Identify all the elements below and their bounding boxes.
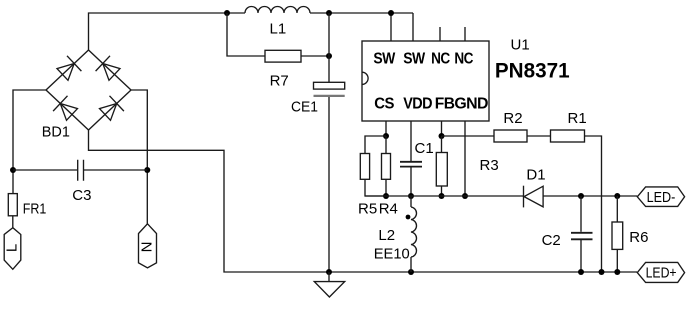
bridge BD1 bottom-right edge xyxy=(89,90,132,130)
svg-text:N: N xyxy=(138,242,155,253)
svg-text:SW: SW xyxy=(403,51,426,68)
wire bridge bottom vertex to ground rail xyxy=(89,130,638,272)
wire GND pin xyxy=(464,121,466,196)
svg-text:NC: NC xyxy=(454,51,473,68)
svg-text:R2: R2 xyxy=(503,110,522,127)
node ground rail / L2 xyxy=(408,269,414,275)
resistor R1 xyxy=(551,130,585,142)
node VDD bottom xyxy=(408,193,414,199)
diode BD1-c (points to left vertex) xyxy=(53,96,77,121)
wire R2 to R1 xyxy=(527,135,551,137)
svg-text:C2: C2 xyxy=(542,232,561,249)
inductor L2 xyxy=(411,207,417,257)
bridge BD1 top-right edge xyxy=(89,50,132,90)
wire C2 bottom lead xyxy=(580,240,582,272)
terminal LED- xyxy=(637,187,684,207)
svg-text:L1: L1 xyxy=(270,21,287,38)
resistor R5 xyxy=(360,154,369,180)
svg-text:BD1: BD1 xyxy=(42,124,70,141)
svg-text:EE10: EE10 xyxy=(374,246,410,263)
resistor R2 xyxy=(494,130,527,142)
capacitor C1 xyxy=(400,162,422,167)
wire FB to R2 xyxy=(442,135,495,137)
node ground rail / CE1 xyxy=(326,269,332,275)
svg-text:L: L xyxy=(4,244,21,252)
node R6 top xyxy=(614,193,620,199)
node C3 left xyxy=(10,167,16,173)
svg-text:LED-: LED- xyxy=(647,189,676,206)
svg-text:NC: NC xyxy=(431,51,450,68)
svg-text:C3: C3 xyxy=(72,187,91,204)
wire R1 to LED+ rail xyxy=(585,136,602,272)
resistor R6 xyxy=(612,222,623,249)
capacitor C3 xyxy=(78,160,84,181)
svg-text:D1: D1 xyxy=(526,166,545,183)
node top rail / SW1 xyxy=(388,10,394,16)
wire R6 bottom lead xyxy=(616,249,618,272)
svg-text:GND: GND xyxy=(454,95,488,112)
diode BD1-b (points to top vertex) xyxy=(96,56,120,81)
svg-text:R1: R1 xyxy=(568,110,587,127)
wire L2 top lead xyxy=(410,196,412,207)
node FB xyxy=(439,133,445,139)
wire R7 right branch xyxy=(301,55,329,57)
node C2 top xyxy=(578,193,584,199)
wire bridge left vertex to FR1 xyxy=(13,90,46,194)
svg-text:L2: L2 xyxy=(378,227,395,244)
wire C3 left lead xyxy=(13,169,77,171)
node R7 / CE1 xyxy=(326,53,332,59)
node ground rail / R1 xyxy=(599,269,605,275)
svg-text:R5: R5 xyxy=(358,201,377,218)
ground symbol xyxy=(314,272,344,297)
wire top rail from L1 to SW pins xyxy=(310,12,413,14)
resistor R4 xyxy=(382,154,391,180)
wire L2 bottom lead xyxy=(410,257,412,272)
wire CE1 bottom lead to ground rail xyxy=(328,97,330,272)
node CS xyxy=(383,133,389,139)
wire CS pin xyxy=(385,121,387,136)
capacitor C2 xyxy=(571,233,593,240)
wire VDD pin to C1 xyxy=(410,121,412,161)
resistor R7 xyxy=(265,50,301,62)
pin stub NC2 xyxy=(464,27,466,41)
chip U1 body xyxy=(362,41,489,121)
svg-text:C1: C1 xyxy=(415,140,434,157)
pin stub NC1 xyxy=(439,27,441,41)
node R4 bottom xyxy=(383,193,389,199)
svg-text:CE1: CE1 xyxy=(291,98,318,115)
wire R3 bottom lead xyxy=(441,186,443,196)
wire top rail from bridge top vertex to L1 xyxy=(89,13,246,50)
svg-text:CS: CS xyxy=(374,95,394,112)
wire R6 top lead xyxy=(616,196,618,222)
wire R5 bottom xyxy=(365,179,386,196)
wire FR1 to L terminal xyxy=(12,216,14,228)
diode BD1-d (points to right vertex) xyxy=(100,96,124,121)
terminal LED+ xyxy=(637,262,684,282)
inductor L1 xyxy=(245,7,310,14)
bridge BD1 top-left edge xyxy=(46,50,89,90)
wire C3 right lead xyxy=(84,169,147,171)
svg-text:R4: R4 xyxy=(379,201,398,218)
wire C1 bottom lead xyxy=(410,167,412,196)
node top rail / R7 left xyxy=(224,10,230,16)
node C3 right xyxy=(144,167,150,173)
diode D1 xyxy=(524,186,544,208)
chip U1 notch xyxy=(362,72,368,84)
fuse resistor FR1 xyxy=(8,194,17,216)
wire CS to R5 top xyxy=(365,136,386,154)
svg-text:FB: FB xyxy=(435,95,455,112)
node ground rail / R6 xyxy=(614,269,620,275)
svg-text:U1: U1 xyxy=(511,36,530,53)
svg-text:LED+: LED+ xyxy=(646,265,677,282)
svg-text:PN8371: PN8371 xyxy=(495,60,570,83)
svg-text:VDD: VDD xyxy=(403,95,432,112)
wire R4 top lead xyxy=(385,136,387,154)
wire SW pin 2 drop xyxy=(412,13,414,41)
terminal N xyxy=(138,224,156,268)
wire bridge right vertex to N terminal xyxy=(131,90,147,224)
capacitor CE1 xyxy=(314,82,345,89)
bridge BD1 bottom-left edge xyxy=(46,90,89,130)
wire R7 left branch xyxy=(227,13,265,56)
L2 phase dot xyxy=(406,215,411,220)
svg-text:R7: R7 xyxy=(270,73,289,90)
svg-text:R3: R3 xyxy=(480,157,499,174)
wire D1 cathode to LED- xyxy=(543,195,637,197)
svg-text:R6: R6 xyxy=(629,229,648,246)
diode BD1-a (points to top vertex) xyxy=(57,56,81,81)
node ground rail / C2 xyxy=(578,269,584,275)
terminal L xyxy=(4,228,21,270)
wire CE1 top lead xyxy=(328,13,330,82)
wire SW pin 1 drop xyxy=(390,13,392,41)
wire mid rail to D1 anode xyxy=(365,195,524,197)
svg-text:FR1: FR1 xyxy=(23,201,47,218)
wire R4 bottom lead xyxy=(385,179,387,196)
wire FB to R3 xyxy=(441,136,443,153)
node R3 bottom xyxy=(439,193,445,199)
wire FB pin xyxy=(441,121,443,136)
wire C2 top lead xyxy=(580,196,582,232)
node GND bottom xyxy=(462,193,468,199)
node top rail / CE1 xyxy=(326,10,332,16)
svg-text:SW: SW xyxy=(373,51,396,68)
resistor R3 xyxy=(436,153,447,187)
